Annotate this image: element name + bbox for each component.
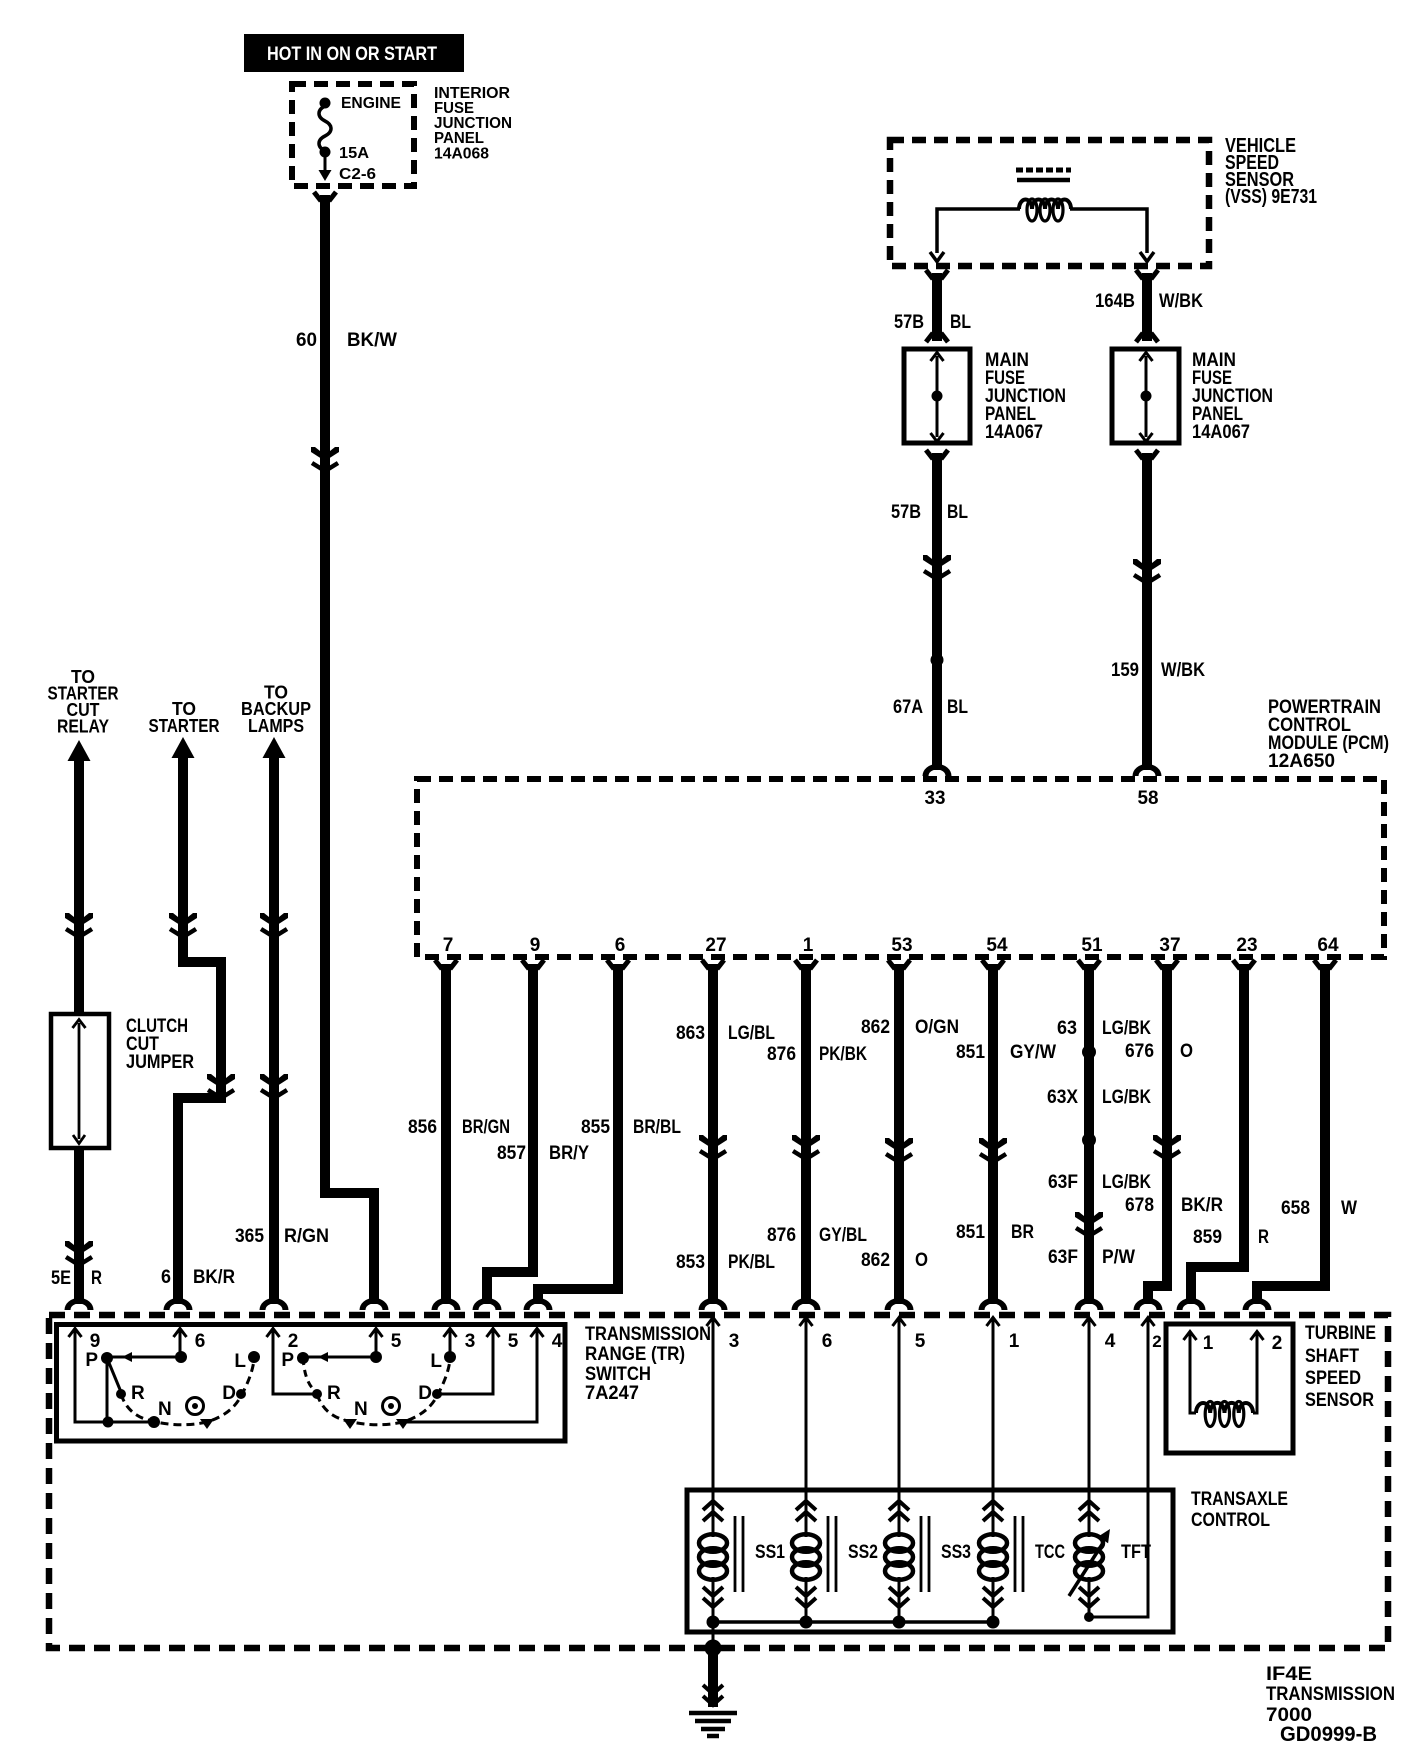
label POWERTRAIN CONTROL MODULE (PCM) 12A650	[1268, 697, 1389, 772]
connector on wire 53	[885, 1138, 913, 1162]
svg-text:LG/BK: LG/BK	[1102, 1018, 1151, 1039]
label 876 PK/BK	[767, 1044, 867, 1065]
contact D left	[236, 1389, 246, 1399]
svg-text:GD0999-B: GD0999-B	[1280, 1723, 1377, 1746]
PCM pin 9	[530, 935, 541, 956]
node TFT return	[1084, 1612, 1094, 1622]
svg-text:862: 862	[861, 1017, 890, 1038]
svg-text:P: P	[85, 1350, 98, 1371]
svg-text:IF4E: IF4E	[1266, 1664, 1312, 1685]
vehicle speed sensor VSS 9E731 (dashed box)	[890, 140, 1209, 266]
svg-text:23: 23	[1236, 935, 1257, 956]
svg-text:BK/R: BK/R	[193, 1267, 235, 1288]
wire 5E R upper segment	[74, 758, 84, 1012]
wire 60 BK/W from fuse to TR switch pin 5	[314, 192, 374, 1304]
label 862 O	[861, 1250, 928, 1271]
svg-text:SS1: SS1	[755, 1542, 785, 1563]
PCM pin 7	[443, 935, 454, 956]
terminal at PCM pin 58	[1133, 764, 1162, 776]
label 57B BL	[894, 312, 971, 333]
label TRANSMISSION RANGE (TR) SWITCH 7A247	[585, 1324, 711, 1404]
PCM pin 33	[925, 788, 946, 809]
svg-text:BK/W: BK/W	[347, 330, 397, 351]
TR switch pin 5	[487, 1329, 519, 1353]
contact N left	[148, 1416, 160, 1428]
PCM pin 23	[1236, 935, 1257, 956]
svg-text:(VSS) 9E731: (VSS) 9E731	[1225, 186, 1317, 208]
label TO STARTER	[149, 699, 220, 736]
PCM pin 54	[986, 935, 1008, 956]
svg-text:4: 4	[1105, 1331, 1116, 1352]
svg-text:1: 1	[1009, 1331, 1020, 1352]
TR switch pin 3	[444, 1329, 476, 1353]
svg-text:LG/BL: LG/BL	[728, 1023, 775, 1044]
svg-text:P/W: P/W	[1102, 1247, 1135, 1268]
VSS lead left	[930, 209, 1020, 262]
power source banner HOT IN ON OR START	[244, 34, 464, 72]
label 862 O/GN	[861, 1017, 959, 1038]
terminal of wire 862 at transmission	[885, 1298, 914, 1310]
svg-text:W: W	[1341, 1198, 1357, 1219]
PCM pin 27	[705, 935, 726, 956]
svg-text:60: 60	[296, 330, 317, 351]
label VEHICLE SPEED SENSOR (VSS) 9E731	[1225, 135, 1317, 208]
svg-text:STARTER: STARTER	[149, 716, 220, 736]
label TURBINE SHAFT SPEED SENSOR	[1305, 1323, 1376, 1411]
svg-text:BL: BL	[947, 697, 968, 718]
svg-text:9: 9	[90, 1331, 101, 1352]
svg-text:GY/W: GY/W	[1010, 1042, 1056, 1063]
terminal of wire 5E at transmission	[65, 1298, 94, 1310]
svg-text:58: 58	[1138, 788, 1159, 809]
svg-text:876: 876	[767, 1225, 796, 1246]
svg-text:BL: BL	[947, 502, 968, 523]
svg-text:159: 159	[1111, 660, 1139, 681]
connector on backup wire lower	[260, 1074, 288, 1098]
svg-text:GY/BL: GY/BL	[819, 1225, 867, 1246]
connector on wire 60	[311, 447, 339, 471]
label MAIN FUSE JUNCTION PANEL 14A067 left	[985, 350, 1066, 443]
svg-text:57B: 57B	[894, 312, 924, 333]
svg-text:63: 63	[1057, 1018, 1077, 1039]
svg-text:3: 3	[729, 1331, 740, 1352]
svg-text:LG/BK: LG/BK	[1102, 1172, 1151, 1193]
label 876 GY/BL	[767, 1225, 867, 1246]
svg-text:855: 855	[581, 1117, 610, 1138]
svg-text:5E: 5E	[51, 1268, 71, 1289]
svg-text:W/BK: W/BK	[1161, 660, 1205, 681]
drawing number GD0999-B	[1280, 1723, 1377, 1746]
marker wire to pin 4	[403, 1332, 537, 1422]
arrow to starter	[172, 737, 195, 758]
svg-text:TRANSMISSION: TRANSMISSION	[1266, 1684, 1395, 1705]
connector on wire 37	[1153, 1135, 1181, 1159]
label 676 O	[1125, 1041, 1193, 1062]
svg-text:SENSOR: SENSOR	[1305, 1390, 1374, 1411]
svg-text:14A067: 14A067	[1192, 422, 1250, 443]
wiper position marker right	[396, 1419, 410, 1429]
solenoid SS2	[792, 1501, 878, 1622]
PCM pin 37	[1159, 935, 1180, 956]
terminal of wire 857 at transmission	[473, 1298, 502, 1310]
svg-text:863: 863	[676, 1023, 705, 1044]
labels P R N D L right	[281, 1350, 442, 1420]
circled D indicator left	[187, 1398, 204, 1415]
TR pin 2 wire to right rotor R	[273, 1332, 317, 1394]
label CLUTCH CUT JUMPER	[126, 1016, 194, 1073]
svg-text:4: 4	[552, 1331, 563, 1352]
svg-text:6: 6	[615, 935, 626, 956]
label TO STARTER CUT RELAY	[48, 667, 119, 737]
svg-text:859: 859	[1193, 1227, 1222, 1248]
svg-text:BR/Y: BR/Y	[549, 1143, 589, 1164]
svg-text:63X: 63X	[1047, 1087, 1078, 1108]
PCM pin 6	[615, 935, 626, 956]
svg-text:57B: 57B	[891, 502, 921, 523]
label TRANSAXLE CONTROL	[1191, 1489, 1288, 1531]
contact R right	[312, 1389, 322, 1399]
svg-text:851: 851	[956, 1222, 985, 1243]
svg-text:D: D	[222, 1383, 236, 1404]
node ground splice on boundary	[705, 1640, 722, 1657]
svg-text:33: 33	[925, 788, 946, 809]
terminal of wire 658 at turbine sensor pin 2	[1243, 1298, 1272, 1310]
svg-text:3: 3	[465, 1331, 476, 1352]
turbine sensor pin 2	[1251, 1332, 1283, 1355]
svg-text:HOT IN ON OR START: HOT IN ON OR START	[267, 44, 437, 65]
label 658 W	[1281, 1198, 1357, 1219]
svg-text:63F: 63F	[1048, 1247, 1078, 1268]
fuse pin C2-6	[339, 166, 376, 183]
arrow to starter cut relay	[68, 740, 91, 761]
svg-text:851: 851	[956, 1042, 985, 1063]
svg-text:TRANSAXLE: TRANSAXLE	[1191, 1489, 1288, 1510]
terminal of wire 855 at transmission	[524, 1298, 553, 1310]
svg-text:ENGINE: ENGINE	[341, 95, 401, 112]
svg-text:365: 365	[235, 1226, 264, 1247]
ground wire from solenoid bus	[712, 1622, 715, 1648]
transaxle wire pin 3	[707, 1318, 740, 1538]
P row wire to pin 6	[107, 1332, 187, 1363]
wiper arm P-R left	[107, 1358, 121, 1392]
label IF4E TRANSMISSION 7000	[1266, 1664, 1395, 1726]
svg-text:CONTROL: CONTROL	[1191, 1510, 1270, 1531]
transaxle control (box)	[687, 1490, 1173, 1632]
label 60 BK/W	[296, 330, 397, 351]
terminal of wire 678 at transmission	[1134, 1298, 1163, 1310]
terminal of wire 63F at transmission	[1075, 1298, 1104, 1310]
svg-text:7: 7	[443, 935, 454, 956]
label 856 BR/GN	[408, 1117, 510, 1138]
svg-text:5: 5	[508, 1331, 519, 1352]
wire 862 from PCM pin 53	[888, 960, 910, 1304]
contact L right wire to pin 3	[444, 1332, 456, 1363]
wire 851 from PCM pin 54	[982, 960, 1004, 1304]
terminal of wire 365 at transmission	[260, 1298, 289, 1310]
svg-text:862: 862	[861, 1250, 890, 1271]
svg-text:14A067: 14A067	[985, 422, 1043, 443]
svg-text:51: 51	[1081, 935, 1103, 956]
svg-text:5: 5	[391, 1331, 402, 1352]
label 5E R	[51, 1268, 102, 1289]
label INTERIOR FUSE JUNCTION PANEL 14A068	[434, 85, 512, 163]
contact P right	[297, 1352, 309, 1364]
svg-text:R: R	[327, 1383, 341, 1404]
wire 855 BR/BL from PCM pin 6	[538, 960, 629, 1304]
svg-text:C2-6: C2-6	[339, 166, 376, 183]
VSS lead right	[1070, 209, 1154, 262]
label 851 BR	[956, 1222, 1034, 1243]
fuse value 15A	[339, 145, 369, 162]
terminal of wire 6 at transmission	[164, 1298, 193, 1310]
svg-text:1: 1	[1203, 1333, 1214, 1354]
wire 63 LG/BK from PCM pin 51	[1078, 960, 1100, 1304]
wire 164B W/BK from VSS to main fuse panel	[1136, 270, 1158, 342]
connector on wire 5E	[65, 1241, 93, 1265]
terminal of wire 60 at transmission	[360, 1298, 389, 1310]
P row wire to pin 5	[303, 1332, 382, 1363]
svg-text:BL: BL	[950, 312, 971, 333]
label MAIN FUSE JUNCTION PANEL 14A067 right	[1192, 350, 1273, 443]
TR switch pin 4	[531, 1329, 563, 1353]
transaxle wire pin 5	[893, 1318, 926, 1538]
svg-text:SHAFT: SHAFT	[1305, 1346, 1359, 1367]
svg-text:SPEED: SPEED	[1305, 1368, 1361, 1389]
splice 57B to 67A	[931, 654, 944, 667]
connector on wire 1	[792, 1135, 820, 1159]
left panel internal link	[931, 352, 944, 442]
svg-text:53: 53	[891, 935, 912, 956]
svg-text:6: 6	[161, 1267, 171, 1288]
svg-text:64: 64	[1317, 935, 1339, 956]
TR switch pin 6	[174, 1329, 206, 1353]
main fuse junction panel 14A067 left (box)	[904, 349, 970, 443]
VSS pickup coil	[1019, 199, 1071, 221]
wire 857 BR/Y from PCM pin 9	[487, 960, 544, 1304]
connector on wire 159	[1133, 559, 1161, 583]
svg-text:N: N	[158, 1399, 172, 1420]
connector on clutch wire	[65, 913, 93, 937]
VSS core bars	[1016, 170, 1071, 180]
turbine shaft speed sensor (box)	[1166, 1324, 1293, 1453]
connector on starter wire lower	[207, 1074, 235, 1098]
contact P left	[101, 1352, 113, 1422]
rotary arc right	[303, 1358, 450, 1425]
TR switch pin 5	[370, 1329, 402, 1353]
rotary arc left	[121, 1360, 254, 1425]
svg-text:856: 856	[408, 1117, 437, 1138]
terminal of wire 859 at turbine sensor pin 1	[1177, 1298, 1206, 1310]
transaxle wire pin 4	[1083, 1318, 1116, 1538]
svg-text:67A: 67A	[893, 697, 923, 718]
terminal at PCM pin 33	[923, 764, 952, 776]
connector on wire 57B	[923, 555, 951, 579]
label 855 BR/BL	[581, 1117, 681, 1138]
wire 876 from PCM pin 1	[795, 960, 817, 1304]
svg-text:LAMPS: LAMPS	[248, 716, 304, 736]
label TO BACKUP LAMPS	[241, 683, 311, 737]
terminal of wire 876 at transmission	[792, 1298, 821, 1310]
svg-text:N: N	[354, 1399, 368, 1420]
clutch jumper internal link	[73, 1019, 86, 1144]
label 365 R/GN	[235, 1226, 329, 1247]
svg-text:BR/GN: BR/GN	[462, 1117, 510, 1138]
solenoid TCC	[979, 1501, 1065, 1622]
wire 658 W from PCM pin 64	[1257, 960, 1336, 1304]
ground	[689, 1713, 737, 1736]
svg-text:PK/BL: PK/BL	[728, 1252, 775, 1273]
svg-text:RANGE (TR): RANGE (TR)	[585, 1344, 685, 1365]
label 159 W/BK	[1111, 660, 1205, 681]
solenoid SS3	[885, 1501, 971, 1622]
svg-text:63F: 63F	[1048, 1172, 1078, 1193]
splice 63 to 63X	[1082, 1045, 1096, 1059]
label 857 BR/Y	[497, 1143, 589, 1164]
label 57B BL lower	[891, 502, 968, 523]
PCM pin 51	[1081, 935, 1103, 956]
svg-text:876: 876	[767, 1044, 796, 1065]
circled D indicator right	[383, 1398, 400, 1415]
svg-text:TCC: TCC	[1035, 1542, 1065, 1563]
contact L left	[248, 1351, 260, 1363]
arrow to backup lamps	[263, 737, 286, 758]
TR switch pin 2	[267, 1329, 299, 1353]
svg-text:RELAY: RELAY	[57, 717, 109, 737]
label 63 LG/BK	[1057, 1018, 1151, 1039]
connector on starter wire upper	[169, 913, 197, 937]
svg-text:658: 658	[1281, 1198, 1310, 1219]
svg-text:BR/BL: BR/BL	[633, 1117, 681, 1138]
svg-text:R: R	[91, 1268, 102, 1289]
PCM pin 58	[1138, 788, 1159, 809]
svg-text:SWITCH: SWITCH	[585, 1364, 651, 1385]
terminal of wire 856 at transmission	[432, 1298, 461, 1310]
svg-text:R/GN: R/GN	[284, 1226, 329, 1247]
PCM pin 1	[803, 935, 814, 956]
svg-text:37: 37	[1159, 935, 1180, 956]
svg-text:BK/R: BK/R	[1181, 1195, 1223, 1216]
labels P R N D L left	[85, 1350, 246, 1420]
transaxle wire pin 1	[987, 1318, 1020, 1538]
terminal of wire 853 at transmission	[699, 1298, 728, 1310]
wire 365 R/GN	[269, 755, 279, 1304]
label 859 R	[1193, 1227, 1269, 1248]
label 853 PK/BL	[676, 1252, 775, 1273]
label 63F P/W	[1048, 1247, 1135, 1268]
svg-text:W/BK: W/BK	[1159, 291, 1203, 312]
wiper position marker left	[200, 1419, 214, 1429]
svg-text:L: L	[430, 1351, 442, 1372]
svg-text:857: 857	[497, 1143, 526, 1164]
svg-text:SS2: SS2	[848, 1542, 878, 1563]
svg-text:12A650: 12A650	[1268, 751, 1335, 772]
label 63F LG/BK	[1048, 1172, 1151, 1193]
right panel internal link	[1140, 352, 1153, 442]
main fuse junction panel 14A067 right (box)	[1112, 349, 1179, 443]
svg-text:R: R	[131, 1383, 145, 1404]
svg-text:D: D	[418, 1383, 432, 1404]
TR pin 9 wire	[75, 1332, 154, 1422]
connector on wire 27	[699, 1135, 727, 1159]
wire 856 BR/GN from PCM pin 7	[435, 960, 457, 1304]
svg-text:R: R	[1258, 1227, 1269, 1248]
svg-text:164B: 164B	[1095, 291, 1135, 312]
thermistor TFT	[1069, 1501, 1151, 1617]
label 67A BL	[893, 697, 968, 718]
label 6 BK/R	[161, 1267, 235, 1288]
connector on wire 63F	[1075, 1212, 1103, 1236]
TR switch pin 9	[69, 1329, 101, 1353]
svg-text:PANEL: PANEL	[434, 130, 484, 147]
svg-text:P: P	[281, 1350, 294, 1371]
svg-text:JUMPER: JUMPER	[126, 1052, 194, 1073]
svg-text:PK/BK: PK/BK	[819, 1044, 867, 1065]
svg-text:TRANSMISSION: TRANSMISSION	[585, 1324, 711, 1345]
ground lead	[703, 1648, 723, 1707]
svg-text:853: 853	[676, 1252, 705, 1273]
wire 57B-67A BL from fuse panel to PCM pin 33	[926, 450, 948, 770]
svg-text:SS3: SS3	[941, 1542, 971, 1563]
interior fuse junction panel 14A068 (dashed box)	[292, 84, 414, 186]
solenoid common bus	[707, 1616, 1000, 1629]
transmission range TR switch 7A247 (box)	[57, 1325, 566, 1442]
connector on backup wire upper	[260, 913, 288, 937]
label 164B W/BK	[1095, 291, 1203, 312]
label 63X LG/BK	[1047, 1087, 1151, 1108]
contact R left	[116, 1389, 126, 1399]
label 678 BK/R	[1125, 1195, 1223, 1216]
svg-text:1: 1	[803, 935, 814, 956]
clutch cut jumper (box)	[51, 1014, 109, 1148]
svg-text:27: 27	[705, 935, 726, 956]
label 851 GY/W	[956, 1042, 1056, 1063]
node junction P-common left	[103, 1417, 114, 1428]
wire 863-853 from PCM pin 27	[702, 960, 724, 1304]
svg-text:LG/BK: LG/BK	[1102, 1087, 1151, 1108]
svg-text:5: 5	[915, 1331, 926, 1352]
transaxle wire pin 6	[800, 1318, 833, 1538]
svg-text:6: 6	[195, 1331, 206, 1352]
turbine sensor coil	[1190, 1334, 1257, 1427]
svg-text:54: 54	[986, 935, 1008, 956]
PCM pin 64	[1317, 935, 1339, 956]
wire 6 BK/R	[178, 755, 221, 1304]
terminal of wire 851 at transmission	[979, 1298, 1008, 1310]
svg-text:TURBINE: TURBINE	[1305, 1323, 1376, 1344]
svg-text:BR: BR	[1011, 1222, 1034, 1243]
wire 859 R from PCM pin 23	[1191, 960, 1255, 1304]
transaxle wire pin 2	[1089, 1318, 1162, 1618]
solenoid SS1	[699, 1501, 785, 1622]
transmission assembly boundary (dashed box)	[49, 1315, 1388, 1648]
svg-text:7A247: 7A247	[585, 1383, 639, 1404]
svg-text:TFT: TFT	[1121, 1542, 1151, 1563]
turbine sensor pin 1	[1184, 1332, 1214, 1355]
splice 63X to 63F	[1082, 1133, 1096, 1147]
svg-text:O: O	[915, 1250, 928, 1271]
powertrain control module PCM 12A650 (dashed box)	[417, 779, 1384, 957]
svg-text:O/GN: O/GN	[915, 1017, 959, 1038]
svg-text:2: 2	[1272, 1333, 1283, 1354]
svg-text:9: 9	[530, 935, 541, 956]
wire 5E R lower segment	[74, 1150, 84, 1304]
svg-text:6: 6	[822, 1331, 833, 1352]
fuse ENGINE 15A	[319, 98, 332, 182]
svg-text:2: 2	[288, 1331, 299, 1352]
svg-text:678: 678	[1125, 1195, 1154, 1216]
wire 57B BL from VSS to main fuse panel	[926, 270, 948, 342]
svg-text:676: 676	[1125, 1041, 1154, 1062]
